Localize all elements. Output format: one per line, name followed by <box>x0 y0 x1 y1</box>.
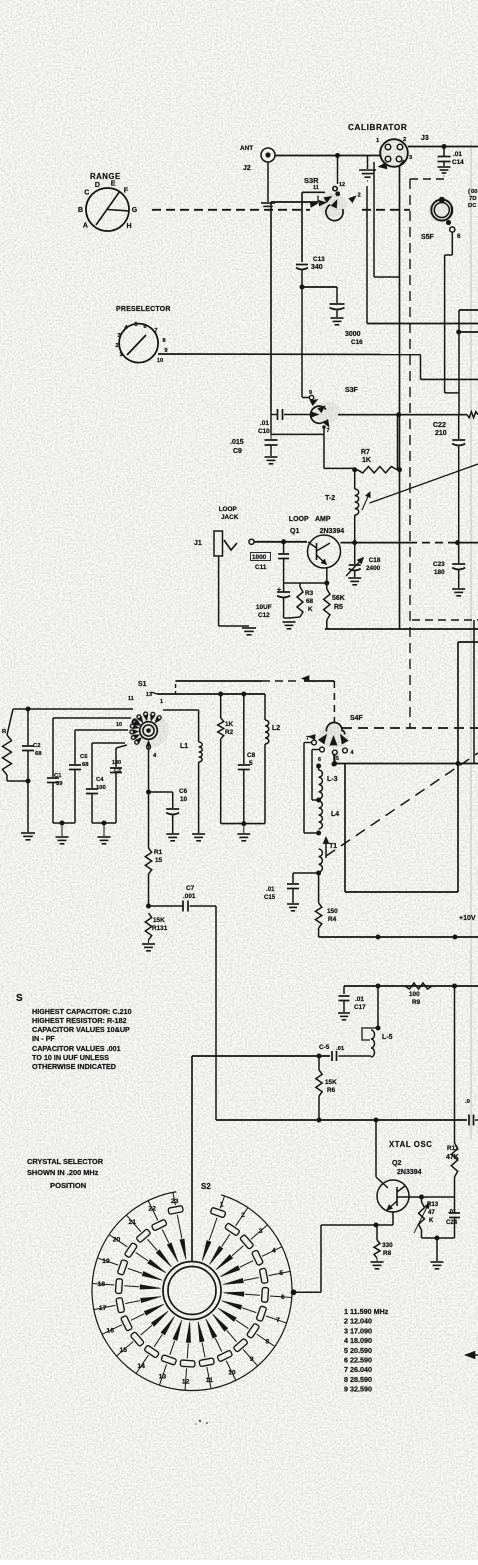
svg-text:68: 68 <box>82 762 89 768</box>
svg-text:7 26.040: 7 26.040 <box>344 1365 372 1374</box>
svg-text:D: D <box>95 182 100 189</box>
svg-text:.01: .01 <box>448 1209 457 1215</box>
svg-text:S: S <box>16 993 23 1004</box>
svg-text:3: 3 <box>259 1228 263 1235</box>
svg-text:PRESELECTOR: PRESELECTOR <box>116 306 171 313</box>
svg-text:.01: .01 <box>453 151 462 158</box>
svg-text:13: 13 <box>146 692 152 698</box>
svg-text:23: 23 <box>171 1198 179 1205</box>
svg-text:11: 11 <box>206 1377 213 1384</box>
svg-text:ANT: ANT <box>240 145 253 152</box>
svg-text:2N3394: 2N3394 <box>397 1169 422 1176</box>
svg-text:4: 4 <box>272 1248 276 1255</box>
svg-text:OTHERWISE INDICATED: OTHERWISE INDICATED <box>32 1062 116 1071</box>
svg-text:100: 100 <box>96 785 107 791</box>
svg-text:5: 5 <box>279 1270 283 1277</box>
svg-text:DC: DC <box>468 203 477 209</box>
svg-text:6: 6 <box>281 1294 285 1301</box>
svg-text:3 17.090: 3 17.090 <box>344 1326 372 1335</box>
svg-text:K: K <box>429 1217 434 1224</box>
svg-text:5: 5 <box>336 756 339 762</box>
svg-text:R2: R2 <box>225 729 234 736</box>
svg-text:4 18.090: 4 18.090 <box>344 1336 372 1345</box>
svg-text:C13: C13 <box>313 256 325 263</box>
svg-text:R: R <box>2 729 7 735</box>
svg-text:TO 10 IN UUF UNLESS: TO 10 IN UUF UNLESS <box>32 1053 109 1062</box>
svg-text:47: 47 <box>428 1209 435 1216</box>
svg-text:340: 340 <box>311 264 323 271</box>
svg-text:+10V: +10V <box>459 915 476 922</box>
svg-text:2N3394: 2N3394 <box>320 528 345 535</box>
svg-text:CALIBRATOR: CALIBRATOR <box>348 123 407 132</box>
svg-text:CAPACITOR VALUES .001: CAPACITOR VALUES .001 <box>32 1044 121 1053</box>
svg-text:39: 39 <box>56 781 63 787</box>
svg-text:2 12.040: 2 12.040 <box>344 1317 372 1326</box>
svg-text:C7: C7 <box>186 885 195 892</box>
svg-text:K: K <box>308 606 313 613</box>
svg-text:11: 11 <box>313 185 319 191</box>
svg-text:47K: 47K <box>446 1154 459 1161</box>
svg-text:C15: C15 <box>264 894 276 901</box>
svg-text:HIGHEST CAPACITOR: C.210: HIGHEST CAPACITOR: C.210 <box>32 1007 132 1016</box>
svg-text:C8: C8 <box>247 752 256 759</box>
svg-text:C6: C6 <box>179 788 188 795</box>
svg-text:+: + <box>277 587 281 594</box>
svg-text:.01: .01 <box>266 886 275 893</box>
svg-text:G: G <box>132 207 138 214</box>
svg-text:L-3: L-3 <box>327 776 338 783</box>
svg-text:C: C <box>84 190 89 197</box>
svg-text:C9: C9 <box>233 448 242 455</box>
svg-text:.0: .0 <box>465 1099 471 1105</box>
svg-text:S1: S1 <box>138 681 147 688</box>
svg-text:C23: C23 <box>433 561 445 568</box>
svg-text:16: 16 <box>106 1327 114 1334</box>
svg-text:150: 150 <box>327 908 338 915</box>
svg-text:C2: C2 <box>33 743 41 749</box>
svg-text:1 11.590 MHz: 1 11.590 MHz <box>344 1307 389 1316</box>
svg-text:15: 15 <box>155 857 163 864</box>
svg-text:.01: .01 <box>336 1046 345 1052</box>
svg-text:.01: .01 <box>260 420 269 427</box>
svg-text:S3R: S3R <box>304 176 319 185</box>
svg-text:2: 2 <box>241 1212 245 1219</box>
svg-text:R11: R11 <box>447 1145 459 1152</box>
svg-text:R5: R5 <box>334 604 343 611</box>
svg-text:3000: 3000 <box>345 331 361 338</box>
svg-text:.001: .001 <box>183 893 196 900</box>
svg-text:7: 7 <box>154 328 157 334</box>
svg-text:C24: C24 <box>446 1219 458 1226</box>
svg-text:S4F: S4F <box>350 715 364 722</box>
svg-text:13: 13 <box>159 1374 167 1381</box>
svg-text:15K: 15K <box>153 917 165 924</box>
svg-text:T1: T1 <box>329 843 337 850</box>
svg-text:19: 19 <box>102 1258 110 1265</box>
svg-text:20: 20 <box>113 1237 121 1244</box>
svg-text:CRYSTAL SELECTOR: CRYSTAL SELECTOR <box>27 1157 104 1166</box>
svg-text:R1: R1 <box>154 849 163 856</box>
svg-text:RANGE: RANGE <box>90 172 121 181</box>
svg-text:R3: R3 <box>305 590 314 597</box>
svg-text:9 32.590: 9 32.590 <box>344 1385 372 1394</box>
svg-text:14: 14 <box>137 1363 145 1370</box>
svg-text:C3: C3 <box>114 768 121 774</box>
svg-text:1: 1 <box>160 699 163 705</box>
svg-text:HIGHEST RESISTOR: R-182: HIGHEST RESISTOR: R-182 <box>32 1016 127 1025</box>
svg-text:1000: 1000 <box>252 554 267 561</box>
svg-text:7: 7 <box>306 736 309 742</box>
svg-text:J3: J3 <box>421 135 429 142</box>
svg-text:C22: C22 <box>433 422 446 429</box>
svg-text:R13: R13 <box>427 1201 439 1208</box>
svg-text:J2: J2 <box>243 165 251 172</box>
svg-text:S3F: S3F <box>345 387 359 394</box>
svg-text:56K: 56K <box>332 595 345 602</box>
svg-text:210: 210 <box>435 430 447 437</box>
svg-text:9: 9 <box>250 1356 254 1363</box>
svg-text:6: 6 <box>457 233 461 240</box>
svg-text:18: 18 <box>97 1281 105 1288</box>
svg-text:H: H <box>127 223 132 230</box>
svg-text:LOOP: LOOP <box>289 516 309 523</box>
svg-text:11: 11 <box>128 696 134 702</box>
svg-text:POSITION: POSITION <box>50 1181 86 1190</box>
svg-text:22: 22 <box>148 1206 156 1213</box>
svg-text:5 20.590: 5 20.590 <box>344 1346 372 1355</box>
svg-text:180: 180 <box>112 760 121 766</box>
svg-text:A: A <box>83 222 88 229</box>
svg-text:9: 9 <box>309 390 312 396</box>
svg-text:1K: 1K <box>362 457 371 464</box>
svg-text:7: 7 <box>327 428 330 434</box>
svg-text:8: 8 <box>266 1338 270 1345</box>
svg-text:6: 6 <box>318 757 321 763</box>
svg-text:6 22.590: 6 22.590 <box>344 1356 372 1365</box>
svg-text:AMP: AMP <box>315 516 331 523</box>
svg-text:L4: L4 <box>331 811 339 818</box>
svg-text:12: 12 <box>339 182 345 188</box>
svg-text:1: 1 <box>220 1201 224 1208</box>
svg-text:C5: C5 <box>80 754 88 760</box>
svg-text:.01: .01 <box>355 996 364 1003</box>
svg-text:10: 10 <box>228 1369 236 1376</box>
svg-text:XTAL OSC: XTAL OSC <box>389 1140 433 1149</box>
svg-text:R131: R131 <box>152 925 168 932</box>
svg-text:1K: 1K <box>225 721 234 728</box>
svg-text:2400: 2400 <box>366 565 381 572</box>
svg-text:Q1: Q1 <box>290 528 299 535</box>
svg-text:00: 00 <box>471 189 478 195</box>
svg-text:CAPACITOR VALUES 10&UP: CAPACITOR VALUES 10&UP <box>32 1025 130 1034</box>
svg-text:15: 15 <box>120 1347 128 1354</box>
svg-text:C-5: C-5 <box>319 1044 330 1051</box>
svg-text:10: 10 <box>116 722 122 728</box>
svg-text:SHOWN IN .200 MHz: SHOWN IN .200 MHz <box>27 1168 99 1177</box>
svg-text:C14: C14 <box>452 159 464 166</box>
svg-text:12: 12 <box>182 1378 190 1385</box>
svg-text:10: 10 <box>157 358 163 364</box>
svg-text:L2: L2 <box>272 725 280 732</box>
svg-text:C17: C17 <box>354 1004 366 1011</box>
svg-text:R8: R8 <box>383 1250 392 1257</box>
svg-text:4: 4 <box>351 750 354 756</box>
svg-text:R6: R6 <box>327 1087 336 1094</box>
svg-text:F: F <box>124 187 129 194</box>
svg-text:7: 7 <box>276 1317 280 1324</box>
svg-text:Q2: Q2 <box>392 1160 401 1167</box>
svg-text:8 28.590: 8 28.590 <box>344 1375 372 1384</box>
svg-text:.015: .015 <box>230 439 244 446</box>
svg-text:330: 330 <box>382 1242 393 1249</box>
svg-text:R9: R9 <box>412 999 421 1006</box>
svg-text:R7: R7 <box>361 449 370 456</box>
svg-text:10: 10 <box>180 796 188 803</box>
svg-text:C16: C16 <box>351 339 363 346</box>
svg-text:S2: S2 <box>201 1182 211 1191</box>
svg-text:T-2: T-2 <box>325 495 335 502</box>
svg-text:100: 100 <box>409 991 420 998</box>
svg-text:B: B <box>78 207 83 214</box>
svg-text:IN - PF: IN - PF <box>32 1034 55 1043</box>
svg-text:LOOP: LOOP <box>219 506 238 513</box>
svg-text:180: 180 <box>434 569 445 576</box>
svg-text:E: E <box>111 181 116 188</box>
svg-text:68: 68 <box>35 751 42 757</box>
svg-text:10UF: 10UF <box>256 604 272 611</box>
svg-text:17: 17 <box>99 1305 107 1312</box>
svg-text:C4: C4 <box>96 777 104 783</box>
svg-text:J1: J1 <box>194 540 202 547</box>
svg-text:R4: R4 <box>328 916 337 923</box>
svg-text:L-5: L-5 <box>382 1034 393 1041</box>
svg-text:15K: 15K <box>325 1079 337 1086</box>
svg-text:C12: C12 <box>258 612 270 619</box>
svg-text:68: 68 <box>306 598 314 605</box>
svg-text:C11: C11 <box>255 564 267 571</box>
svg-text:5: 5 <box>249 760 253 767</box>
svg-text:21: 21 <box>129 1219 137 1226</box>
svg-text:L1: L1 <box>180 743 188 750</box>
svg-text:7D: 7D <box>469 196 477 202</box>
svg-text:2: 2 <box>115 343 118 349</box>
svg-text:C1: C1 <box>54 773 62 779</box>
svg-text:C18: C18 <box>369 557 381 564</box>
svg-text:S5F: S5F <box>421 234 435 241</box>
svg-text:JACK: JACK <box>221 514 239 521</box>
svg-text:C10: C10 <box>258 428 270 435</box>
